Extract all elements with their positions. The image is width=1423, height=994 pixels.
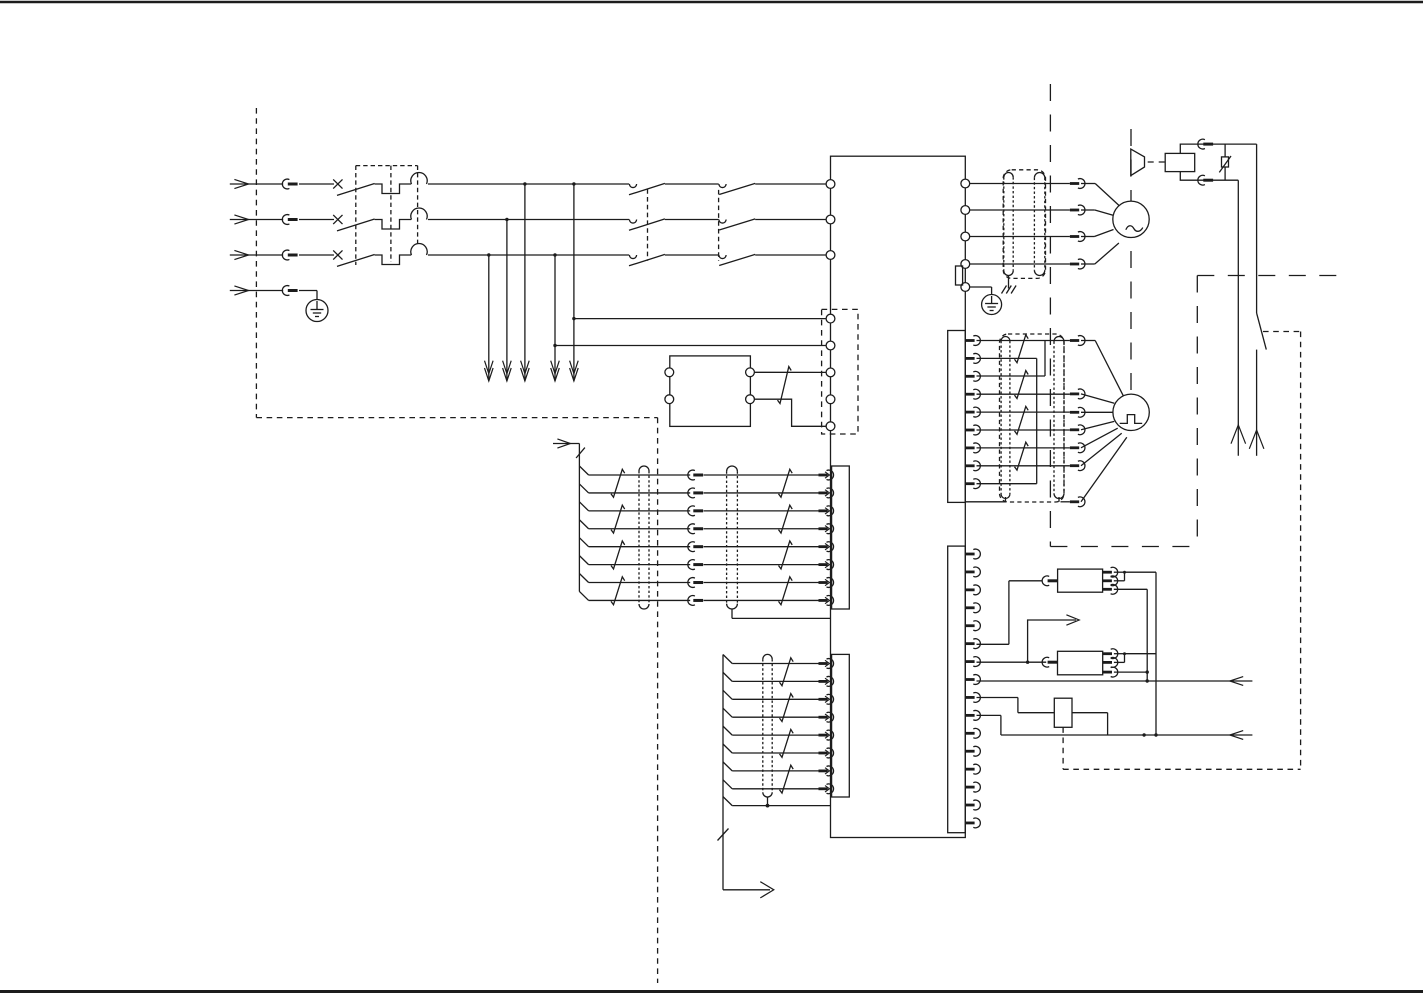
relay KA2 pins 1-2 jumper	[1114, 652, 1126, 662]
encoder G1 circle	[1113, 394, 1149, 430]
wire limit switch to feedback 2	[1072, 713, 1108, 735]
wire KA2 output to vertical B	[1125, 653, 1157, 655]
twist mark io1 pair 1b	[779, 469, 793, 497]
brake varistor leads	[1224, 144, 1226, 180]
wire phase L3 to breaker	[299, 254, 334, 256]
motor cable shield stadium left	[1004, 172, 1013, 275]
brake circuit knife switch blade	[1257, 313, 1267, 350]
contactor K2 blade phase L2	[719, 219, 755, 230]
io1 wire 3 segment b	[704, 510, 819, 512]
io bundle 2 collector vertical	[722, 655, 724, 890]
encoder connector pin E	[1070, 443, 1085, 453]
io1 shield stadium right	[727, 466, 738, 609]
cabinet boundary dashed left vertical	[255, 108, 257, 418]
wire KA2 pin3 to vertical A	[1114, 671, 1147, 673]
twist mark io2 pair 4	[780, 765, 794, 793]
contactor K2 blade phase L3	[719, 254, 755, 265]
drive CN4 pin 8	[965, 675, 980, 685]
twist mark io1 pair 4a	[611, 577, 625, 605]
io1 inline connector pin 5	[688, 542, 703, 552]
drive CN4 pin 12	[965, 746, 980, 756]
encoder connector pin C	[1070, 407, 1085, 417]
drive terminal R	[826, 180, 835, 189]
control terminals dashed enclosure	[822, 309, 858, 434]
wire encoder lead A	[1081, 341, 1124, 397]
io2 drive pin 8	[819, 784, 834, 794]
io bundle 1 entry arrow	[553, 439, 579, 448]
input connector X0 phase L2	[282, 215, 297, 225]
junction feedback 2 dot	[1142, 733, 1145, 736]
machine boundary long-dash horizontal D	[1197, 275, 1343, 277]
io2 wire 2 segment	[732, 680, 818, 682]
relay KA2 right pin 3	[1103, 667, 1118, 677]
machine boundary long-dash horizontal B	[1050, 546, 1197, 548]
brake varistor box	[1222, 157, 1229, 167]
wire phase L3 breaker to contactor	[428, 254, 629, 256]
encoder wire 3	[977, 375, 1046, 377]
io2 wire 2 fanout diagonal	[723, 672, 732, 681]
drive CN4 pin 1	[965, 549, 980, 559]
motor M1 sine symbol	[1126, 226, 1143, 232]
io2 wire 8 segment	[732, 788, 818, 790]
fuse mark phase L1	[333, 179, 342, 188]
wire feedback 1 from CN4 pin8	[977, 677, 1253, 686]
motor cable shield stadium right	[1034, 172, 1044, 275]
drive control terminal 5	[826, 422, 835, 431]
wire aux d stepped to control terminal 5	[754, 399, 826, 426]
io2 wire 3 segment	[732, 698, 818, 700]
machine boundary long-dash vertical A	[1049, 84, 1051, 547]
twist mark io2 pair 2	[780, 694, 794, 722]
contactor K2 contact phase L2	[719, 220, 726, 224]
encoder wire 6	[977, 429, 1070, 431]
twist mark encoder pair 4	[1015, 442, 1029, 470]
wire brake supply B	[1231, 180, 1246, 456]
io1 drive pin 7	[819, 578, 834, 588]
io2 wire 3 fanout diagonal	[723, 690, 732, 699]
relay KA1 pins 1-2 jumper	[1114, 571, 1126, 581]
wire motor phase V	[970, 209, 1070, 211]
relay KA2 right pin 1	[1103, 649, 1118, 659]
wire KA1 output to vertical B	[1125, 571, 1157, 573]
wire encoder lead E	[1081, 428, 1118, 448]
twist mark encoder pair 1	[1015, 335, 1029, 363]
encoder connector pin SH	[1070, 497, 1085, 507]
wire motor lead W	[1081, 230, 1114, 237]
relay KA1 left pin	[1042, 576, 1057, 586]
io1 shield drain wire to drive	[732, 617, 831, 619]
encoder strip pin 9	[965, 479, 980, 489]
cabinet boundary dashed right vertical	[657, 418, 659, 983]
drive unit U1 box	[831, 156, 966, 837]
drive CN4 pin 10	[965, 710, 980, 720]
wire CN4 pin9 to limit switch	[977, 698, 1055, 713]
relay KA2 left pin	[1042, 657, 1057, 667]
twist mark io1 pair 3b	[779, 541, 793, 569]
breaker Q1 overload notch phase L1	[375, 184, 412, 194]
wire motor phase PE	[970, 263, 1070, 265]
encoder G1 pulse symbol	[1120, 415, 1143, 424]
motor M1 circle	[1113, 201, 1149, 237]
drive terminal B2	[961, 283, 970, 292]
io2 wire 7 fanout diagonal	[723, 762, 732, 771]
motor connector pin PE	[1070, 259, 1085, 269]
encoder wire 8	[977, 465, 1070, 467]
io2 wire 5 fanout diagonal	[723, 726, 732, 735]
io1 wire 8 fanout diagonal	[579, 591, 588, 600]
io1 shield drain tail	[731, 609, 733, 618]
io bundle 2 collector slash	[718, 829, 729, 841]
contactor K1 blade phase L2	[629, 219, 665, 230]
signal arrow up-right	[1026, 615, 1079, 664]
twist mark aux pair	[778, 367, 792, 404]
wire phase L1 K1 to K2	[665, 183, 719, 185]
io2 drive pin 7	[819, 766, 834, 776]
io1 wire 4 segment b	[704, 528, 819, 530]
brake connector pin bottom	[1198, 175, 1213, 185]
io1 wire 3 fanout diagonal	[579, 502, 588, 511]
io2 wire 7 segment	[732, 770, 818, 772]
wire motor phase W	[970, 236, 1070, 238]
io1 inline connector pin 1	[688, 470, 703, 480]
input arrow phase L2	[230, 215, 283, 224]
encoder strip pin 3	[965, 371, 980, 381]
io1 wire 7 segment b	[704, 582, 819, 584]
twist mark encoder pair 3	[1015, 406, 1029, 434]
drive connector strip CN4 (lower right)	[948, 546, 966, 833]
drive CN4 pin 9	[965, 693, 980, 703]
aux block terminal c	[746, 368, 755, 377]
twist mark io2 pair 1	[780, 658, 794, 686]
drive connector strip CN2 (lower left)	[832, 654, 850, 797]
relay KA2 box	[1058, 651, 1103, 675]
input arrow PE	[230, 286, 283, 295]
encoder shield drain wire from CN3	[965, 501, 1070, 503]
motor cable dashed sheath	[1003, 170, 1045, 279]
drive control terminal 2	[826, 341, 835, 350]
wire phase L3 to drive terminal	[755, 254, 830, 256]
relay KA1 right pin 2	[1103, 576, 1118, 586]
drive CN4 pin 3	[965, 585, 980, 595]
input connector X0 PE	[282, 286, 297, 296]
encoder strip pin 6	[965, 425, 980, 435]
io2 wire 9 fanout diagonal	[723, 797, 732, 806]
io1 inline connector pin 2	[688, 488, 703, 498]
contactor K1 blade phase L3	[629, 254, 665, 265]
encoder strip pin 8	[965, 461, 980, 471]
wire feedback 2 from CN4 pin10	[977, 715, 1253, 739]
io1 inline connector pin 3	[688, 506, 703, 516]
drive CN4 pin 16	[965, 818, 980, 828]
io1 wire 7 fanout diagonal	[579, 574, 588, 583]
io2 drive pin 5	[819, 730, 834, 740]
io1 wire 6 fanout diagonal	[579, 556, 588, 565]
wire tap v1 from L3	[485, 253, 494, 381]
encoder shield stadium left	[1001, 336, 1010, 501]
io2 shield stadium	[763, 654, 772, 797]
io1 inline connector pin 4	[688, 524, 703, 534]
brake linkage dashed top stub	[1263, 331, 1301, 333]
io1 drive pin 2	[819, 488, 834, 498]
relay KA2 right pin 2	[1103, 658, 1118, 668]
io1 shield stadium left	[639, 466, 649, 609]
drive earth ground symbol	[982, 295, 1002, 315]
wire vertical B	[1155, 572, 1157, 735]
brake connector pin top	[1198, 139, 1213, 149]
encoder shield stadium right	[1054, 337, 1064, 502]
io1 inline connector pin 6	[688, 560, 703, 570]
junction vertical B / wire2	[1154, 733, 1157, 736]
contactor K1 mechanical link dashed	[647, 189, 649, 261]
brake linkage dashed horizontal	[1063, 768, 1301, 770]
io2 drive pin 3	[819, 694, 834, 704]
io2 drive pin 2	[819, 677, 834, 687]
io1 wire 6 segment b	[704, 564, 819, 566]
encoder strip pin 5	[965, 407, 980, 417]
encoder wire 5	[977, 411, 1070, 413]
io1 wire 6 segment a	[589, 564, 691, 566]
io bundle 2 exit arrow	[723, 882, 774, 898]
drive terminal U	[961, 179, 970, 188]
wire PE to ground	[299, 291, 317, 300]
wire phase L1 breaker to contactor	[428, 183, 629, 185]
drive CN4 pin 15	[965, 800, 980, 810]
brake yoke top lead	[1180, 144, 1256, 153]
encoder connector pin D	[1070, 425, 1085, 435]
io1 wire 2 segment b	[704, 492, 819, 494]
io1 wire 1 fanout diagonal	[579, 466, 588, 475]
io1 inline connector pin 8	[688, 596, 703, 606]
wire CN4 pin7 to relay KA2	[977, 661, 1047, 663]
io1 wire 7 segment a	[589, 582, 691, 584]
wire encoder lead B	[1081, 394, 1114, 403]
io2 shield tail	[766, 797, 770, 807]
io1 wire 4 fanout diagonal	[579, 520, 588, 529]
drive terminal V	[961, 206, 970, 215]
encoder connector pin A	[1070, 336, 1085, 346]
io1 wire 2 segment a	[589, 492, 691, 494]
wire phase L1 to drive terminal	[755, 183, 830, 185]
relay KA1 right pin 1	[1103, 567, 1118, 577]
brake pad trapezoid	[1131, 149, 1145, 176]
encoder jumper 1-3 vertical	[1044, 341, 1046, 377]
io1 drive pin 3	[819, 506, 834, 516]
encoder wire 4	[977, 393, 1070, 395]
wire branch to control terminal 2	[553, 344, 826, 347]
wire aux c to control terminal 3	[754, 371, 826, 373]
border top	[0, 1, 1423, 4]
twist mark io1 pair 2b	[779, 505, 793, 533]
breaker Q1 blade phase L1	[337, 184, 375, 196]
junction KA2 pin3 / vertical A	[1146, 670, 1149, 673]
wire phase L1 to breaker	[299, 183, 334, 185]
contactor K1 blade phase L1	[629, 183, 665, 194]
brake linkage dashed from limit switch	[1062, 727, 1064, 769]
io2 wire 6 segment	[732, 752, 818, 754]
io1 inline connector pin 7	[688, 578, 703, 588]
brake coil box	[1165, 153, 1195, 171]
io1 wire 5 segment b	[704, 546, 819, 548]
aux contact block K3 box	[670, 356, 751, 427]
motor connector pin U	[1070, 179, 1085, 189]
encoder jumper 2-9 vertical	[1036, 358, 1038, 483]
wire encoder lead SH	[1081, 437, 1127, 502]
twist mark io1 pair 4b	[779, 577, 793, 605]
wire CN4 pin6 to relay KA1	[977, 581, 1043, 645]
encoder strip pin 4	[965, 389, 980, 399]
wire encoder lead F	[1081, 433, 1122, 465]
io1 drive pin 4	[819, 524, 834, 534]
drive terminal T	[826, 251, 835, 260]
io1 wire 1 segment a	[589, 474, 691, 476]
drive CN4 pin 11	[965, 728, 980, 738]
breaker Q1 magnetic hump phase L1	[411, 172, 427, 184]
brake varistor slash	[1219, 156, 1231, 172]
junction vertical A / wire1	[1146, 679, 1149, 682]
io2 wire 4 segment	[732, 716, 818, 718]
encoder wire 9	[977, 483, 1037, 485]
io1 drive pin 6	[819, 560, 834, 570]
wire tap v2 from L2	[503, 218, 512, 381]
contactor K2 contact phase L1	[719, 184, 726, 188]
cabinet boundary dashed horizontal	[256, 417, 657, 419]
encoder strip pin 7	[965, 443, 980, 453]
motor connector pin W	[1070, 232, 1085, 242]
wire B2 to drive earth	[970, 287, 992, 295]
io2 drive pin 1	[819, 659, 834, 669]
encoder wire 1	[977, 340, 1070, 342]
contactor K2 blade phase L1	[719, 183, 755, 194]
encoder wire 2	[977, 357, 1037, 359]
io1 drive pin 1	[819, 470, 834, 480]
wire encoder lead D	[1081, 421, 1114, 429]
input arrow phase L1	[230, 179, 283, 188]
brake linkage dashed vertical	[1300, 332, 1302, 770]
io1 wire 2 fanout diagonal	[579, 484, 588, 493]
twist mark io1 pair 3a	[611, 541, 625, 569]
contactor K1 contact phase L3	[629, 255, 636, 259]
aux block terminal d	[746, 395, 755, 404]
wire phase L2 K1 to K2	[665, 219, 719, 221]
breaker Q1 overload notch phase L2	[375, 220, 412, 230]
drive CN4 pin 4	[965, 603, 980, 613]
io2 wire 1 fanout diagonal	[723, 655, 732, 664]
wire brake supply A upper	[1256, 144, 1258, 313]
io bundle 1 collector vertical	[578, 444, 580, 592]
aux block terminal b	[665, 395, 674, 404]
twist mark encoder pair 2	[1015, 371, 1029, 399]
input connector X0 phase L3	[282, 250, 297, 260]
io1 drive pin 5	[819, 542, 834, 552]
io2 wire 1 segment	[732, 663, 818, 665]
drive control terminal 4	[826, 395, 835, 404]
io2 wire 6 fanout diagonal	[723, 744, 732, 753]
brake yoke bottom lead	[1180, 172, 1238, 181]
drive CN4 pin 13	[965, 764, 980, 774]
encoder connector pin F	[1070, 461, 1085, 471]
breaker Q1 dashed enclosure	[356, 166, 418, 265]
encoder strip pin 1	[965, 336, 980, 346]
drive connector strip CN1 (upper left)	[832, 466, 850, 609]
wire tap v5 from L1 with branch	[570, 182, 579, 381]
wire motor lead V	[1081, 210, 1114, 215]
io2 wire 4 fanout diagonal	[723, 708, 732, 717]
breaker Q1 magnetic hump phase L2	[411, 208, 427, 220]
contactor K2 contact phase L3	[719, 255, 726, 259]
wire motor phase U	[970, 183, 1070, 185]
breaker Q1 blade phase L2	[337, 219, 375, 231]
io2 wire 8 fanout diagonal	[723, 780, 732, 789]
input connector X0 phase L1	[282, 179, 297, 189]
encoder cable dashed sheath	[1000, 334, 1065, 502]
wire motor lead PE	[1081, 243, 1119, 264]
motor boundary long-dash vertical	[1130, 129, 1132, 395]
input arrow phase L3	[230, 250, 283, 259]
io1 wire 8 segment b	[704, 599, 819, 601]
breaker Q1 magnetic hump phase L3	[411, 243, 427, 255]
breaker Q1 overload notch phase L3	[375, 255, 412, 265]
wire KA1 pin3 vertical A	[1114, 589, 1147, 681]
drive connector strip CN3 (upper right)	[948, 331, 966, 503]
motor connector pin V	[1070, 205, 1085, 215]
brake linkage dash between pad and coil	[1148, 161, 1166, 163]
drive CN4 pin 5	[965, 621, 980, 631]
breaker Q1 blade phase L3	[337, 255, 375, 267]
wire branch to control terminal 1	[572, 317, 826, 320]
drive CN4 pin 7	[965, 657, 980, 667]
io bundle 1 collector slash	[576, 448, 585, 458]
io2 drive pin 6	[819, 748, 834, 758]
relay KA1 right pin 3	[1103, 584, 1118, 594]
drive CN4 pin 6	[965, 639, 980, 649]
contactor K1 contact phase L2	[629, 220, 636, 224]
io1 wire 5 fanout diagonal	[579, 538, 588, 547]
wire phase L3 K1 to K2	[665, 254, 719, 256]
drive control terminal 1	[826, 314, 835, 323]
wire phase L2 to drive terminal	[755, 219, 830, 221]
contactor K2 mechanical link dashed	[718, 190, 720, 261]
io1 wire 4 segment a	[589, 528, 691, 530]
wire tap v4 from L3 with branch	[551, 253, 560, 381]
wire brake supply A lower	[1249, 350, 1264, 456]
machine boundary long-dash vertical C	[1196, 276, 1198, 547]
twist mark io1 pair 2a	[611, 505, 625, 533]
relay KA1 box	[1058, 569, 1103, 592]
wire tap v3 from L1	[521, 182, 530, 381]
motor shield drain	[1008, 276, 1010, 289]
drive CN4 pin 2	[965, 567, 980, 577]
io1 wire 5 segment a	[589, 546, 691, 548]
contactor K1 contact phase L1	[629, 184, 636, 188]
io1 wire 3 segment a	[589, 510, 691, 512]
wire encoder lead C	[1081, 411, 1113, 413]
drive control terminal 3	[826, 368, 835, 377]
wire motor lead U	[1081, 184, 1119, 206]
brake resistor jumper box	[956, 266, 963, 285]
drive terminal B1	[961, 260, 970, 269]
aux block terminal a	[665, 368, 674, 377]
io1 drive pin 8	[819, 596, 834, 606]
io1 wire 8 segment a	[589, 599, 691, 601]
wire phase L2 to breaker	[299, 219, 334, 221]
encoder connector pin B	[1070, 389, 1085, 399]
encoder strip pin 2	[965, 354, 980, 364]
drive terminal W	[961, 232, 970, 241]
fuse mark phase L2	[333, 215, 342, 224]
limit switch SQ1 box	[1054, 698, 1072, 727]
motor shield chassis ground	[1002, 286, 1017, 294]
fuse mark phase L3	[333, 250, 342, 259]
